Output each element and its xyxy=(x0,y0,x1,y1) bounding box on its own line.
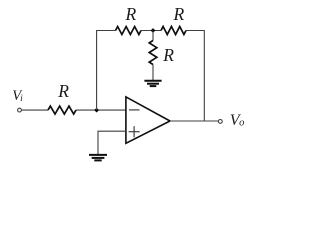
ground G2 xyxy=(89,155,107,161)
svg-text:R: R xyxy=(125,4,137,24)
wire output xyxy=(170,120,218,122)
op-amp U1 triangle xyxy=(126,97,170,143)
ground G1 xyxy=(144,81,161,86)
wire top right xyxy=(186,30,204,32)
wire input xyxy=(22,109,48,111)
resistor R3 xyxy=(161,27,186,35)
wire top left xyxy=(96,30,115,32)
wire right vertical feedback xyxy=(203,30,205,121)
op-amp U1 plus sign xyxy=(129,126,140,137)
wire plus input to ground xyxy=(98,131,126,154)
wire R1 to node A xyxy=(76,109,126,111)
terminal Vi xyxy=(18,108,22,112)
resistor R2 xyxy=(116,27,142,35)
svg-text:Vo: Vo xyxy=(230,112,245,129)
svg-text:R: R xyxy=(173,4,185,24)
resistor R4 vertical xyxy=(149,41,157,65)
wire node A up xyxy=(96,31,98,111)
terminal Vo xyxy=(218,120,222,124)
wire R4 to ground xyxy=(152,65,154,81)
node B junction dot xyxy=(151,28,156,33)
wire R2 to node B xyxy=(141,30,161,32)
wire node B down xyxy=(152,31,154,41)
svg-text:R: R xyxy=(57,81,69,101)
op-amp U1 minus sign xyxy=(129,109,140,111)
svg-text:Vi: Vi xyxy=(12,88,23,104)
resistor R1 xyxy=(48,106,76,114)
svg-text:R: R xyxy=(162,45,174,65)
node A junction dot xyxy=(94,108,99,113)
